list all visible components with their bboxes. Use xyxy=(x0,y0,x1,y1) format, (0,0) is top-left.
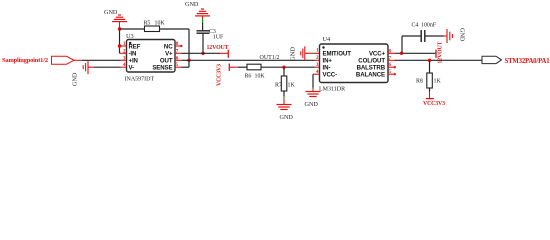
svg-text:V+: V+ xyxy=(165,51,173,58)
wire OUT red segment at U4 pin2 xyxy=(315,59,320,61)
wire GND2 stem green marker xyxy=(202,19,204,23)
svg-text:R8: R8 xyxy=(416,78,423,84)
wire GND to U4 pin1 red stem xyxy=(305,52,312,54)
svg-text:10K: 10K xyxy=(255,73,266,79)
svg-text:BALANCE: BALANCE xyxy=(356,72,385,79)
svg-text:NC: NC xyxy=(164,43,173,50)
wire GND stem red to box xyxy=(314,52,320,54)
wire R5 elbow down to OUT net (crosses V+ wire) xyxy=(188,29,190,67)
svg-text:EMIT/OUT: EMIT/OUT xyxy=(323,51,352,58)
U4 pin 4 VCC- stub xyxy=(313,73,320,75)
wire GND1 stem red xyxy=(119,22,121,29)
svg-text:VCC3V3: VCC3V3 xyxy=(423,101,445,107)
svg-text:GND: GND xyxy=(290,47,297,61)
wire C4 right xyxy=(425,35,444,37)
U3 pin 1 REF stub xyxy=(121,45,127,47)
wire U4 COL/OUT to port xyxy=(395,59,482,61)
wire R7 green marker xyxy=(283,96,285,98)
net tick 12VOUT xyxy=(227,50,229,58)
svg-text:1UF: 1UF xyxy=(213,35,224,41)
svg-text:U4: U4 xyxy=(323,36,332,43)
op-amp U3 pin1 indicator dot xyxy=(129,42,131,44)
wire C4 branch vertical xyxy=(401,36,403,53)
wire divider to R6 xyxy=(238,66,247,68)
wire GND2 to C3 xyxy=(202,23,204,31)
wire V+ rail red end segment xyxy=(220,52,228,54)
svg-text:1K: 1K xyxy=(434,78,442,84)
wire divider red segment at U4 pin3 xyxy=(315,66,320,68)
U3 pin 3 +IN stub xyxy=(121,59,127,61)
ground GND3 bars xyxy=(83,60,93,74)
svg-text:REF: REF xyxy=(129,43,141,50)
svg-text:1K: 1K xyxy=(288,83,296,89)
capacitor C4 plates xyxy=(420,30,422,42)
wire GND stem green marker xyxy=(312,52,314,54)
wire GND3 to V- xyxy=(94,66,121,68)
svg-text:SENSE: SENSE xyxy=(152,65,172,72)
U3 pin 2 -IN stub xyxy=(120,52,127,54)
wire GND2 stem red xyxy=(202,16,204,19)
svg-text:12VOUT: 12VOUT xyxy=(207,45,229,51)
ground GND2 bars (inverted) xyxy=(195,9,210,16)
wire VCC- green marker xyxy=(312,88,314,90)
U4 pin 8 VCC+ stub xyxy=(388,52,395,54)
port STM32PA0/PA1 flag xyxy=(482,56,502,63)
ground GND1 bars (inverted) xyxy=(112,15,127,22)
junction dot C3/V+ xyxy=(201,52,204,55)
svg-text:GND: GND xyxy=(185,1,199,8)
svg-text:IN-: IN- xyxy=(323,65,331,72)
svg-text:BALSTRB: BALSTRB xyxy=(357,65,386,72)
wire R6 to U4 IN- xyxy=(261,66,315,68)
wire vertical GND/REF/-IN xyxy=(119,29,121,53)
U3 pin 5 SENSE stub xyxy=(175,66,182,68)
junction dot R5 branch xyxy=(118,27,121,30)
net tick 12VOUT (VCC+ end) xyxy=(435,50,437,58)
svg-text:Samplingpoint1/2: Samplingpoint1/2 xyxy=(2,57,48,64)
svg-text:GND: GND xyxy=(104,9,118,16)
wire SENSE to OUT elbow xyxy=(182,66,190,68)
resistor R5 body xyxy=(145,26,160,32)
wire R8 red stem xyxy=(429,92,431,99)
ground GND6 bars (below R7) xyxy=(277,105,292,110)
wire divider red start segment xyxy=(229,66,238,68)
svg-text:100nF: 100nF xyxy=(421,23,437,29)
wire R7 red stem xyxy=(283,98,285,104)
svg-text:C4: C4 xyxy=(412,23,419,29)
junction dot REF branch xyxy=(118,44,121,47)
junction dot C4 branch xyxy=(400,52,403,55)
svg-text:GND: GND xyxy=(72,72,79,86)
wire C3 to V+ wire xyxy=(202,33,204,53)
port Samplingpoint1/2 flag xyxy=(52,56,75,64)
op-amp U3 body xyxy=(127,40,176,73)
resistor R6 body xyxy=(247,64,261,70)
wire port to +IN xyxy=(82,59,121,61)
wire R7 stem top xyxy=(283,67,285,76)
U3 pin 8 NC stub (unconnected) xyxy=(175,45,181,47)
wire OUT net (U3 OUT to U4 IN+) xyxy=(182,59,315,61)
wire R7 stem bottom xyxy=(283,91,285,96)
ground GND5 bars (below U4) xyxy=(306,92,321,97)
wire VCC- red stem xyxy=(312,89,314,91)
svg-text:GND: GND xyxy=(459,28,466,42)
U4 pin 5 BALANCE stub (unconnected) xyxy=(388,73,395,75)
svg-text:VCC3V3: VCC3V3 xyxy=(217,64,223,86)
svg-text:R6: R6 xyxy=(245,73,252,79)
U4 pin 7 COL/OUT stub xyxy=(388,59,395,61)
resistor R7 body xyxy=(281,76,287,91)
wire right of R5 xyxy=(160,28,190,30)
junction dot R7 branch xyxy=(282,66,285,69)
wire GND4 red segment xyxy=(444,35,448,37)
wire U4 VCC+ rail xyxy=(395,52,436,54)
wire port to +IN (red segment) xyxy=(74,59,82,61)
svg-text:VCC+: VCC+ xyxy=(369,51,386,58)
U3 pin 4 V- stub xyxy=(121,66,127,68)
U3 pin 7 V+ stub xyxy=(175,52,182,54)
svg-text:STM32PA0/PA1: STM32PA0/PA1 xyxy=(505,58,550,65)
svg-text:-IN: -IN xyxy=(129,51,137,58)
svg-text:GND: GND xyxy=(305,101,319,108)
net tick VCC3V3 xyxy=(228,64,230,72)
net tick VCC3V3 (below R8) xyxy=(426,98,434,100)
comparator U4 pin1 indicator dot xyxy=(322,46,324,48)
svg-text:VCC-: VCC- xyxy=(323,72,338,79)
wire left of R5 xyxy=(120,28,145,30)
U4 pin 6 BALSTRB stub (unconnected) xyxy=(388,66,395,68)
svg-text:GND: GND xyxy=(280,114,294,121)
wire R8 stem bottom xyxy=(429,88,431,92)
comparator U4 body xyxy=(320,44,389,83)
wire C4 left xyxy=(402,35,421,37)
wire V+ rail xyxy=(182,52,221,54)
svg-text:INA597IDT: INA597IDT xyxy=(125,77,155,83)
svg-text:LM311DR: LM311DR xyxy=(319,87,345,93)
wire R8 stem top xyxy=(429,60,431,73)
resistor R8 body xyxy=(427,73,433,88)
ground GND4 bars (rotated right of C4) xyxy=(447,29,452,43)
ground GND@U4pin1 bars xyxy=(301,46,305,60)
capacitor C3 plates xyxy=(197,30,210,32)
wire U4 VCC- down to GND5 xyxy=(312,74,314,87)
svg-text:V-: V- xyxy=(129,65,135,72)
junction dot R5/SENSE on OUT wire xyxy=(187,59,190,62)
U3 pin 6 OUT stub xyxy=(175,59,182,61)
junction dot R8 branch xyxy=(428,59,431,62)
